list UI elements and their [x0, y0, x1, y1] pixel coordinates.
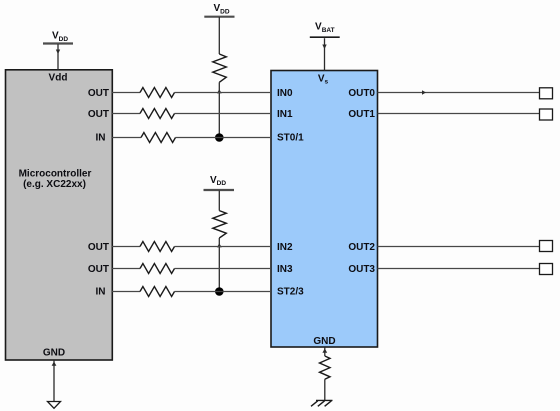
svg-text:OUT: OUT	[88, 88, 109, 99]
earth ground symbol (driver IC)	[311, 400, 333, 406]
load connector pad OUT1	[540, 109, 553, 120]
wire IN to resistor R8	[112, 291, 140, 293]
wire OUT to resistor R6	[112, 246, 140, 248]
svg-text:OUT0: OUT0	[348, 88, 375, 99]
svg-text:OUT2: OUT2	[348, 242, 375, 253]
svg-text:ST2/3: ST2/3	[277, 287, 304, 298]
wire resistor R7 to pin IN3	[175, 268, 272, 270]
resistor R6 (series OUT to IN2)	[140, 242, 175, 252]
load connector pad OUT2	[540, 241, 553, 252]
svg-text:OUT: OUT	[88, 264, 109, 275]
wire VDD to Vdd pin	[56, 44, 60, 70]
power symbol VDD (left, microcontroller supply)	[43, 31, 73, 44]
svg-text:VDD: VDD	[52, 31, 68, 43]
wire GND pin of microcontroller to ground	[52, 360, 57, 402]
svg-text:VBAT: VBAT	[315, 21, 335, 33]
resistor R7 (series OUT to IN3)	[140, 264, 175, 274]
svg-text:IN2: IN2	[277, 242, 293, 253]
svg-text:ST0/1: ST0/1	[277, 133, 304, 144]
microcontroller U1 box	[6, 70, 113, 360]
ground symbol (signal ground, microcontroller)	[48, 402, 61, 409]
svg-text:GND: GND	[313, 336, 335, 347]
wire resistor R2 to node ST2/3	[217, 238, 222, 292]
resistor R8 (series IN to ST2/3)	[140, 287, 175, 297]
resistor R5 (series IN to ST0/1)	[141, 133, 176, 143]
wire OUT to resistor R4	[112, 113, 140, 115]
svg-text:OUT: OUT	[88, 109, 109, 120]
svg-text:IN: IN	[96, 287, 106, 298]
svg-text:VDD: VDD	[210, 175, 226, 187]
wire IN to resistor R5	[112, 137, 141, 139]
wire resistor R4 to pin IN1	[175, 113, 272, 115]
wire OUT1 to load connector	[378, 113, 540, 115]
junction node ST0/1	[215, 133, 224, 142]
wire resistor R1 to node ST0/1	[217, 82, 222, 137]
wire VBAT to Vs pin	[322, 38, 326, 70]
svg-text:IN0: IN0	[277, 88, 293, 99]
junction node ST2/3	[215, 287, 224, 296]
wire VDD bar to resistor R1	[218, 17, 220, 54]
resistor R3 (series OUT to IN0)	[140, 88, 175, 98]
resistor R9 (GND return)	[320, 356, 331, 379]
wire OUT2 to load connector	[378, 246, 540, 248]
svg-text:IN: IN	[96, 133, 106, 144]
power symbol VDD (pull-up for ST0/1)	[204, 3, 234, 17]
svg-text:OUT: OUT	[88, 242, 109, 253]
svg-text:Vdd: Vdd	[49, 73, 68, 84]
svg-text:IN3: IN3	[277, 264, 293, 275]
svg-text:GND: GND	[43, 348, 65, 359]
driver IC U2 box	[271, 71, 378, 348]
wire resistor R5 to pin ST0/1	[176, 137, 272, 139]
resistor R1 (pull-up ST0/1)	[213, 54, 227, 82]
resistor R4 (series OUT to IN1)	[140, 109, 175, 119]
wire OUT0 to load connector	[378, 90, 540, 94]
load connector pad OUT3	[540, 264, 553, 275]
wire resistor R8 to pin ST2/3	[175, 291, 272, 293]
power symbol VBAT	[310, 21, 340, 37]
wire OUT to resistor R3	[112, 92, 140, 94]
svg-text:Microcontroller: Microcontroller	[19, 168, 92, 179]
wire GND pin of driver IC to resistor R9	[322, 347, 327, 356]
svg-text:OUT3: OUT3	[348, 264, 375, 275]
power symbol VDD (pull-up for ST2/3)	[204, 175, 235, 190]
wire OUT to resistor R7	[112, 268, 140, 270]
wire resistor R9 to earth ground	[324, 379, 326, 400]
wire resistor R6 to pin IN2	[175, 246, 272, 248]
svg-text:IN1: IN1	[277, 109, 293, 120]
svg-text:(e.g. XC22xx): (e.g. XC22xx)	[23, 179, 86, 190]
wire VDD bar to resistor R2	[218, 191, 220, 211]
wire OUT3 to load connector	[378, 268, 540, 270]
load connector pad OUT0	[540, 88, 553, 99]
svg-text:OUT1: OUT1	[348, 109, 375, 120]
svg-text:VDD: VDD	[213, 3, 229, 15]
wire resistor R3 to pin IN0	[175, 92, 272, 94]
resistor R2 (pull-up ST2/3)	[213, 211, 227, 238]
